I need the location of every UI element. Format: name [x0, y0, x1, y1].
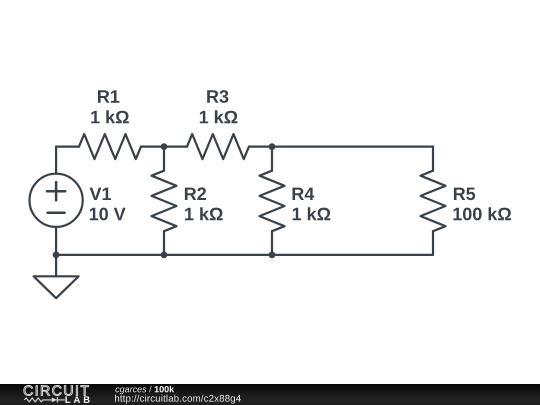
resistor R3: [187, 134, 249, 159]
logo diode cathode bar: [56, 397, 58, 402]
footer url: [115, 395, 241, 404]
footer bar: [0, 384, 540, 405]
junction dot node A top: [161, 143, 168, 150]
junction dot node B top: [269, 143, 276, 150]
junction dot node B bottom: [269, 252, 276, 259]
label R5 value: [453, 207, 511, 220]
wire node B to top-right corner: [249, 146, 433, 148]
logo resistor squiggle: [24, 398, 52, 402]
resistor R1: [79, 134, 141, 159]
wire R1 to node A: [141, 146, 187, 148]
wire R4 bottom stub: [271, 231, 273, 255]
logo diode triangle: [52, 398, 57, 403]
label R1 value: [91, 110, 129, 123]
logo diode wire: [57, 399, 64, 401]
resistor R5: [421, 171, 446, 232]
wire top-left segment: [56, 146, 79, 148]
footer circuit name bold: [155, 386, 175, 393]
ground symbol: [34, 276, 79, 298]
wire V1 bottom stub: [55, 227, 57, 255]
wire R4 top stub: [271, 147, 273, 171]
resistor R4: [260, 171, 285, 232]
wire bottom rail: [56, 254, 433, 256]
label R3 value: [200, 110, 238, 123]
label R4 value: [293, 207, 331, 220]
label R2 value: [185, 207, 223, 220]
label R4 name: [293, 188, 315, 200]
voltage source V1 body: [29, 174, 82, 227]
wire V1 top stub: [55, 147, 57, 174]
wire R5 bottom stub: [432, 231, 434, 255]
logo LAB wordmark: [65, 396, 89, 403]
V1 minus sign: [48, 212, 65, 215]
label V1 name: [90, 188, 111, 200]
label V1 value: [90, 208, 126, 221]
wire R2 top stub: [163, 147, 165, 171]
footer author separator: [149, 386, 152, 393]
wire R2 bottom stub: [163, 231, 165, 255]
label R2 name: [185, 187, 206, 200]
footer author name (italic): [115, 388, 146, 395]
junction dot node A bottom: [161, 252, 168, 259]
label R5 name: [454, 188, 475, 201]
wire ground stub: [55, 255, 57, 276]
label R1 name: [98, 90, 119, 102]
V1 plus sign: [47, 182, 65, 200]
logo CIRCUIT wordmark (hairline outline): [24, 386, 89, 396]
wire R5 top stub: [432, 147, 434, 171]
resistor R2: [152, 171, 177, 232]
junction dot ground node: [53, 252, 60, 259]
label R3 name: [207, 90, 228, 103]
